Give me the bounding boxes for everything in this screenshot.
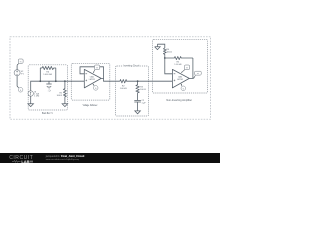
svg-text:9V: 9V — [186, 68, 188, 70]
label IS 1mA 1kHz — [34, 92, 39, 98]
inverting circuit dashed box — [116, 66, 149, 116]
label OA2 LM741 — [177, 76, 184, 81]
svg-text:1.00 kΩ: 1.00 kΩ — [120, 88, 127, 90]
black box Y1 dashed box — [28, 65, 67, 110]
svg-text:LM741: LM741 — [89, 79, 96, 81]
label Inverting Circuit — [123, 64, 140, 67]
svg-text:LM741: LM741 — [177, 79, 184, 81]
label OA1 LM741 — [89, 76, 96, 81]
svg-text:Inverting Circuit: Inverting Circuit — [123, 64, 139, 67]
svg-text:1 µF: 1 µF — [48, 90, 51, 92]
svg-text:100 Ω: 100 Ω — [167, 52, 173, 54]
junction at R1 top — [64, 80, 66, 82]
svg-text:100 Ω: 100 Ω — [57, 95, 63, 97]
wire VF feedback loop — [80, 67, 104, 79]
svg-text:9V: 9V — [20, 61, 22, 63]
wire junction to OA2 - input — [165, 58, 173, 74]
ground under R1 — [62, 104, 68, 107]
svg-text:1 kHz: 1 kHz — [34, 96, 39, 98]
op-amp OA1 (voltage follower) — [84, 69, 101, 88]
svg-text:100 Ω: 100 Ω — [140, 89, 146, 91]
label C2 1uF — [142, 100, 147, 104]
svg-text:9 V: 9 V — [21, 73, 25, 75]
resistor Rb (with stubs) — [40, 66, 56, 81]
resistor R3 — [136, 81, 139, 100]
svg-text:1.00 kΩ: 1.00 kΩ — [174, 64, 181, 66]
resistor R2 (inverting circuit horizontal) — [120, 80, 138, 83]
label V2 9V — [21, 71, 25, 75]
label R2 1.00 kOhm — [120, 86, 127, 90]
ground under IS — [28, 104, 34, 107]
capacitor C1 (polarized, hanging) — [46, 81, 51, 87]
wire feedback down to output node — [192, 58, 194, 78]
voltage source V2 — [14, 70, 20, 76]
label Rb 1.000 GOhm — [43, 71, 52, 75]
junction at R3 top — [137, 80, 139, 82]
junction at Rb right stub — [55, 80, 57, 82]
label R4 100 Ohm — [167, 49, 173, 53]
label C1 1uF — [48, 89, 51, 93]
footer bar — [0, 153, 220, 163]
resistor R4 — [163, 48, 166, 58]
current source IS — [28, 91, 33, 96]
wire IS bottom — [30, 96, 32, 104]
label R5 1.00 kOhm — [174, 62, 181, 66]
op-amp OA2 — [172, 69, 189, 88]
wire VF output to bus — [104, 78, 120, 81]
wire V2 top — [16, 65, 18, 70]
supply flag top of OA2 — [181, 65, 189, 73]
label R3 100 Ohm — [140, 87, 146, 91]
svg-text:Non-Inverting Amplifier: Non-Inverting Amplifier — [166, 99, 192, 102]
svg-text:Black Box Y1: Black Box Y1 — [42, 113, 53, 115]
ground under C2 — [135, 111, 141, 114]
CircuitLab logo wordmark — [9, 155, 33, 164]
node flag bottom of V2 — [17, 86, 23, 92]
node flag top of V2 — [17, 59, 23, 65]
wire OA2 output — [189, 77, 193, 79]
supply flag bottom of OA2 — [181, 84, 186, 91]
voltage follower dashed box — [71, 63, 110, 100]
wire ground to R4 — [157, 44, 164, 48]
outer dashed box — [10, 37, 211, 119]
resistor R5 (feedback) — [165, 57, 193, 60]
svg-text:9V: 9V — [96, 68, 98, 70]
wire V2 bottom — [16, 76, 18, 87]
junction at R4 bottom — [164, 57, 166, 59]
supply flag top of OA1 — [93, 65, 100, 73]
wire bus to OA2 + input — [138, 80, 173, 82]
svg-text:1.000 GΩ: 1.000 GΩ — [43, 74, 52, 76]
resistor R1 — [63, 81, 66, 104]
wire main bus left (current source corner to VF + input) — [31, 81, 85, 91]
ground NI box top-left — [155, 44, 161, 49]
junction at Rb left stub — [39, 80, 41, 82]
non-inverting amplifier dashed box — [152, 39, 207, 93]
output node flag — [194, 71, 202, 78]
label R1 100 Ohm — [57, 92, 63, 96]
svg-text:1 µF: 1 µF — [142, 102, 147, 104]
supply flag bottom of OA1 — [93, 84, 98, 90]
svg-text:Voltage Follower: Voltage Follower — [83, 104, 98, 107]
capacitor C2 — [134, 101, 141, 111]
